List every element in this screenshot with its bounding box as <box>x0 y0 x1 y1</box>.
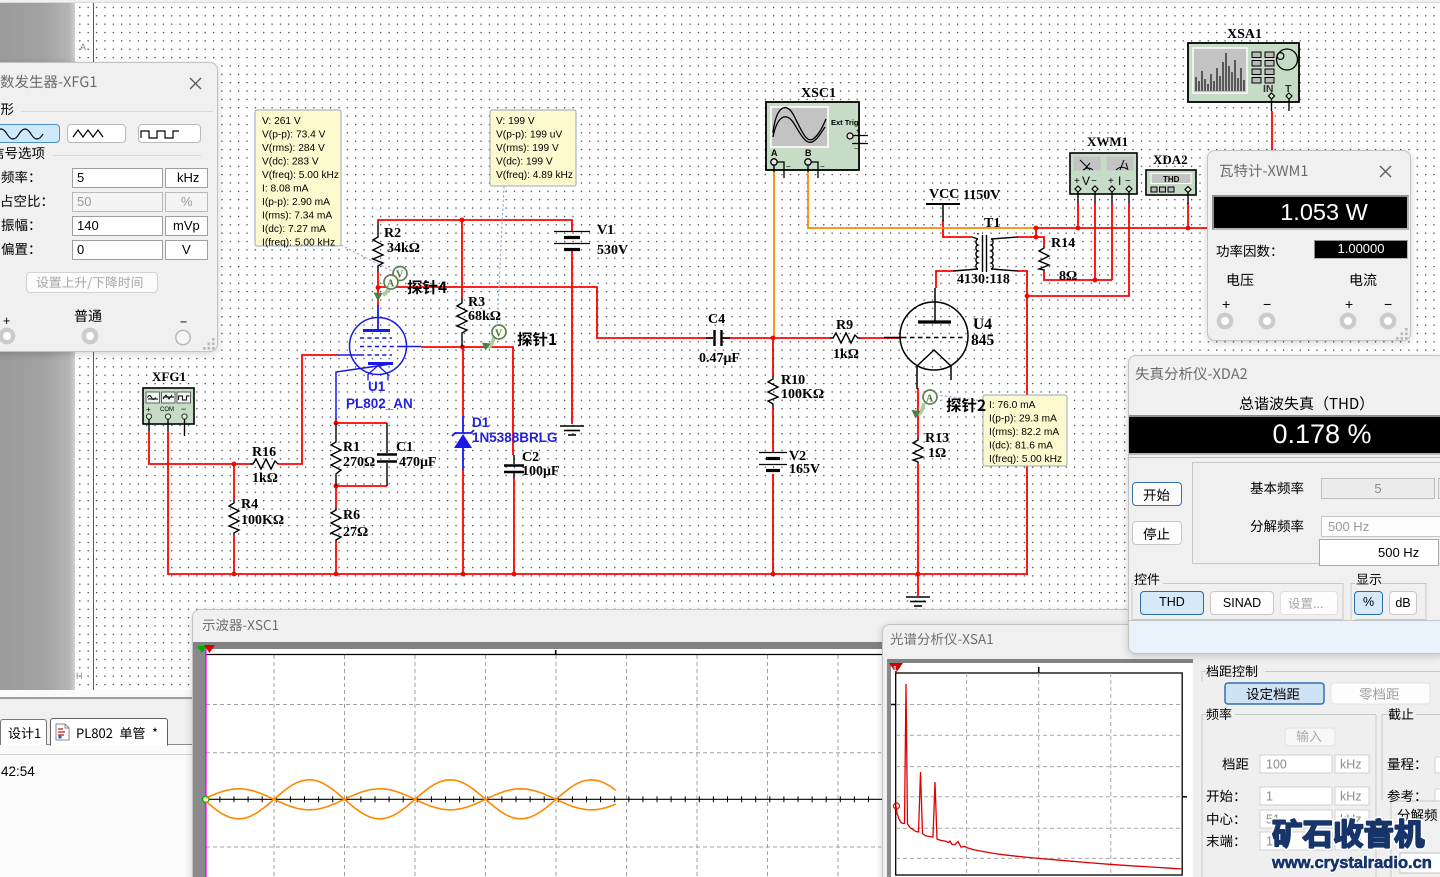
wire T1 secondary bottom to bus <box>1018 271 1027 574</box>
wire orange scope channel B <box>808 172 1035 228</box>
svg-text:kHz: kHz <box>1340 813 1362 827</box>
svg-text:B: B <box>805 148 812 158</box>
svg-text:C1: C1 <box>396 440 413 455</box>
wire D1 branch top <box>462 347 464 416</box>
wire U1 cathode down <box>335 418 337 423</box>
svg-text:THD: THD <box>1163 175 1180 184</box>
wire R10 V2 branch <box>772 338 774 376</box>
svg-text:kHz: kHz <box>1340 835 1362 849</box>
wire VCC to T1 primary top <box>943 220 972 237</box>
scope trace channel B <box>206 789 616 810</box>
wire orange scope channel A <box>773 172 775 338</box>
svg-text:1Ω: 1Ω <box>928 446 946 461</box>
callout line probe4 <box>341 245 392 271</box>
text xda-stop <box>1143 528 1169 540</box>
right controls <box>883 625 1440 877</box>
instrument icon XDA2 distortion analyzer <box>1146 170 1196 204</box>
svg-text:100: 100 <box>1266 758 1287 772</box>
svg-text:1kΩ: 1kΩ <box>252 471 278 486</box>
text tab2 <box>77 727 157 739</box>
svg-text:R10: R10 <box>781 373 805 388</box>
svg-text:−: − <box>854 146 858 153</box>
svg-text:1: 1 <box>1266 790 1273 804</box>
wire R1C1 top rail <box>336 422 387 424</box>
svg-text:R4: R4 <box>241 497 258 512</box>
svg-text:Ext Trig: Ext Trig <box>831 118 859 127</box>
text xsa-input <box>1297 730 1322 742</box>
wire XSA1 IN down <box>1271 111 1273 151</box>
svg-text:R1: R1 <box>343 440 360 455</box>
svg-text:XSC1: XSC1 <box>801 86 836 101</box>
text xfg-btn <box>37 276 143 289</box>
text wm-main <box>1273 819 1424 848</box>
svg-text:+: + <box>146 405 151 414</box>
probe 探针4 voltage-current probe <box>374 267 408 302</box>
ground below V1 <box>560 426 584 435</box>
battery V1 <box>554 232 590 250</box>
svg-text:10: 10 <box>1266 835 1280 849</box>
svg-text:U1: U1 <box>368 379 386 394</box>
svg-text:R16: R16 <box>252 445 276 460</box>
resistor R4 <box>229 500 239 535</box>
text xfg-l4 <box>1 243 32 255</box>
svg-text:8Ω: 8Ω <box>1059 269 1077 284</box>
svg-text:V: V <box>495 329 503 340</box>
svg-text:−: − <box>181 404 186 414</box>
svg-text:−: − <box>820 162 825 171</box>
wire R9 to U4 grid <box>860 337 901 339</box>
text xda-rf <box>1251 520 1304 533</box>
zener diode D1 <box>452 416 474 470</box>
svg-text:27Ω: 27Ω <box>343 525 368 540</box>
wire R2 bottom to node <box>377 272 379 287</box>
canvas dotted grid <box>75 3 1440 690</box>
svg-text:V: V <box>1082 174 1090 188</box>
text xsa-r1 <box>1222 758 1248 770</box>
svg-text:U4: U4 <box>973 316 992 333</box>
svg-text:165V: 165V <box>789 462 820 477</box>
text xwm-pf <box>1217 245 1275 258</box>
wire XFG1 plus to R16 <box>149 431 250 464</box>
dialog XWM1 wattmeter <box>1207 150 1411 341</box>
sheet border line <box>93 3 94 690</box>
resistor R16 <box>250 459 278 469</box>
text probe1 <box>517 332 556 347</box>
instrument icon XWM1 wattmeter <box>1070 153 1137 204</box>
instrument icon XSC1 oscilloscope <box>766 102 868 178</box>
text xsa-freq <box>1206 708 1231 720</box>
wire XWM1 V plus <box>1077 204 1079 228</box>
wire junction dots <box>232 218 1191 577</box>
svg-text:1kΩ: 1kΩ <box>833 347 859 362</box>
wire U4 cathode to R13 <box>917 388 919 437</box>
labels U1 and D1 in blue <box>346 379 558 445</box>
instrument icon XSA1 spectrum analyzer <box>1188 43 1299 111</box>
wire probe4 node to C4 <box>378 287 713 338</box>
svg-text:A: A <box>926 394 934 405</box>
svg-text:D1: D1 <box>472 415 490 430</box>
dialog XFG1 function generator <box>0 62 218 352</box>
wire node to R14 top <box>1036 237 1044 246</box>
svg-text:845: 845 <box>971 332 995 349</box>
svg-text:1150V: 1150V <box>963 188 1000 203</box>
probe 探针1 voltage probe <box>482 325 506 351</box>
scope trace channel A <box>206 780 616 819</box>
measurement box probe1 <box>490 110 576 186</box>
resistor R14 <box>1039 246 1049 271</box>
wire top rail down to R3 <box>461 220 463 297</box>
wire R1C1 bottom rail <box>336 485 387 487</box>
svg-text:kHz: kHz <box>1340 758 1362 772</box>
callout line probe1 <box>497 186 504 326</box>
labels: component reference designators and values <box>152 27 1262 540</box>
svg-text:34kΩ: 34kΩ <box>387 241 420 256</box>
text xwm-i <box>1351 273 1377 286</box>
svg-text:C4: C4 <box>708 312 725 327</box>
svg-text:kHz: kHz <box>1340 790 1362 804</box>
capacitor C1 <box>377 423 397 486</box>
wire R6 branch <box>335 486 337 507</box>
svg-text:VCC: VCC <box>929 187 959 202</box>
tube U4 845 <box>884 288 968 389</box>
VCC power symbol <box>926 204 960 221</box>
svg-text:51: 51 <box>1266 813 1280 827</box>
text probe4 <box>407 280 446 295</box>
svg-text:XFG1: XFG1 <box>152 369 186 384</box>
text xsa-cut <box>1388 708 1413 720</box>
text xsc-title <box>202 619 278 631</box>
svg-text:R6: R6 <box>343 508 360 523</box>
battery V2 <box>759 453 787 471</box>
svg-text:100μF: 100μF <box>522 464 560 479</box>
svg-text:COM: COM <box>160 407 174 413</box>
svg-text:+: + <box>1108 176 1114 187</box>
svg-text:0.47μF: 0.47μF <box>699 351 740 366</box>
tube U1 PL802 <box>336 305 421 419</box>
text xwm-v <box>1228 273 1254 286</box>
svg-text:V1: V1 <box>597 223 614 238</box>
svg-text:R9: R9 <box>836 318 853 333</box>
svg-text:R14: R14 <box>1051 236 1075 251</box>
resistor R1 <box>331 423 341 486</box>
text xda-disp <box>1357 574 1382 585</box>
text xsa-r2 <box>1207 790 1238 802</box>
resistor R6 <box>331 507 341 542</box>
probe 探针2 current probe <box>912 390 938 419</box>
spectrum trace <box>896 684 1182 869</box>
svg-text:1N5388BRLG: 1N5388BRLG <box>472 430 558 445</box>
wire D1 bottom to bus <box>462 470 464 574</box>
text wm-halo <box>1273 819 1424 848</box>
text xda-bf <box>1250 482 1303 495</box>
dialog XDA2 distortion analyzer <box>1128 355 1440 654</box>
text probe2 <box>946 398 985 413</box>
wire bottom ground bus <box>168 431 1028 574</box>
text xda-ctl <box>1134 573 1159 585</box>
svg-text:+: + <box>856 129 860 135</box>
wire R13 to bus and ground <box>917 463 919 596</box>
svg-text:A: A <box>387 279 395 290</box>
svg-text:R2: R2 <box>384 226 401 241</box>
wire XWM1 I minus <box>1027 204 1129 296</box>
text xda-set <box>1289 598 1323 609</box>
svg-text:530V: 530V <box>597 243 628 258</box>
svg-text:−: − <box>786 162 791 171</box>
wire V1 bottom to ground <box>571 249 573 424</box>
ground below R13 <box>906 597 930 606</box>
svg-text:−: − <box>1125 176 1131 187</box>
resistor R2 <box>373 224 383 272</box>
text xfg-l1 <box>1 171 32 184</box>
resistor R9 <box>830 333 860 343</box>
text xsa-r3 <box>1207 813 1237 825</box>
svg-text:XSA1: XSA1 <box>1227 27 1262 42</box>
text tab1 <box>9 727 41 739</box>
text xsa-rr1 <box>1388 758 1419 770</box>
dialog XSA1 spectrum analyzer <box>882 624 1440 877</box>
instrument icon XFG1 <box>143 388 194 436</box>
text xsa-title <box>890 633 992 646</box>
svg-text:100KΩ: 100KΩ <box>241 513 284 528</box>
svg-text:470μF: 470μF <box>399 455 437 470</box>
text xfg-boxing <box>0 103 14 116</box>
resistor R10 <box>768 376 778 407</box>
wire R16 right to U1 grid <box>278 355 337 464</box>
plot inset <box>887 659 1193 877</box>
text xfg-sig <box>0 147 44 159</box>
text xsa-fj <box>1398 809 1437 821</box>
text xsa-r4 <box>1206 835 1237 847</box>
wire U4 anode to T1 primary bottom <box>936 271 953 288</box>
wire top rail R2 to V1 <box>378 220 572 231</box>
wire C2 bottom to bus <box>513 478 515 574</box>
left sheet margin grey <box>0 3 75 690</box>
capacitor C4 <box>706 330 730 346</box>
resistor R13 <box>913 437 923 463</box>
wire XDA2 terminal down <box>1187 203 1189 228</box>
svg-text:C2: C2 <box>522 450 539 465</box>
svg-text:XDA2: XDA2 <box>1153 152 1188 167</box>
text xwm-title <box>1220 164 1307 177</box>
svg-text:A: A <box>771 148 778 158</box>
wire R14 bottom rail <box>1044 271 1112 280</box>
svg-text:R13: R13 <box>925 431 949 446</box>
text xfg-pt <box>75 309 102 322</box>
watermark crystalradio URL <box>1272 854 1432 873</box>
wire C4 to R9 <box>722 337 830 339</box>
svg-text:−: − <box>1091 176 1097 187</box>
svg-text:T1: T1 <box>984 216 1000 231</box>
text xsa-span <box>1206 665 1257 677</box>
svg-text:68kΩ: 68kΩ <box>468 309 501 324</box>
text xda-start <box>1144 489 1170 501</box>
transformer T1 <box>953 233 1018 272</box>
resistor R3 <box>457 297 467 347</box>
svg-text:PL802_AN: PL802_AN <box>346 396 413 411</box>
text xda-title <box>1136 367 1247 380</box>
svg-text:+: + <box>1074 176 1080 187</box>
svg-text:270Ω: 270Ω <box>343 455 375 470</box>
wire main output node to XDA2 and XWM1 dialog <box>1036 227 1207 229</box>
wire R4 branch <box>233 464 235 500</box>
svg-text:R3: R3 <box>468 295 485 310</box>
svg-text:4130:118: 4130:118 <box>957 272 1010 287</box>
text xsa-setspan <box>1247 688 1300 701</box>
text xfg-l3 <box>1 219 32 231</box>
svg-text:I: I <box>1118 174 1121 188</box>
dialog XSC1 oscilloscope <box>192 609 1440 877</box>
wire U1 grid node to R3 and down <box>421 347 513 455</box>
svg-text:XWM1: XWM1 <box>1087 134 1128 149</box>
callout line probe2 <box>937 395 983 401</box>
measurement box probe2 <box>983 395 1067 466</box>
text xsa-zero <box>1359 688 1398 701</box>
wire XWM1 V minus <box>1094 204 1096 280</box>
wire XWM1 I plus <box>1111 204 1113 280</box>
text xfg-title <box>1 75 97 88</box>
svg-text:100KΩ: 100KΩ <box>781 387 824 402</box>
capacitor C2 <box>504 455 524 478</box>
text xsa-rr2 <box>1388 790 1419 803</box>
bottom-left UI: splitter, tabs, status <box>0 690 192 877</box>
top light strip <box>0 0 1440 3</box>
text xda-thd <box>1240 396 1364 410</box>
measurement box probe4 <box>255 110 341 249</box>
wire anode node down to U1 <box>377 287 379 305</box>
wire T1 secondary top to node <box>1018 228 1036 237</box>
text xfg-l2 <box>2 195 45 207</box>
